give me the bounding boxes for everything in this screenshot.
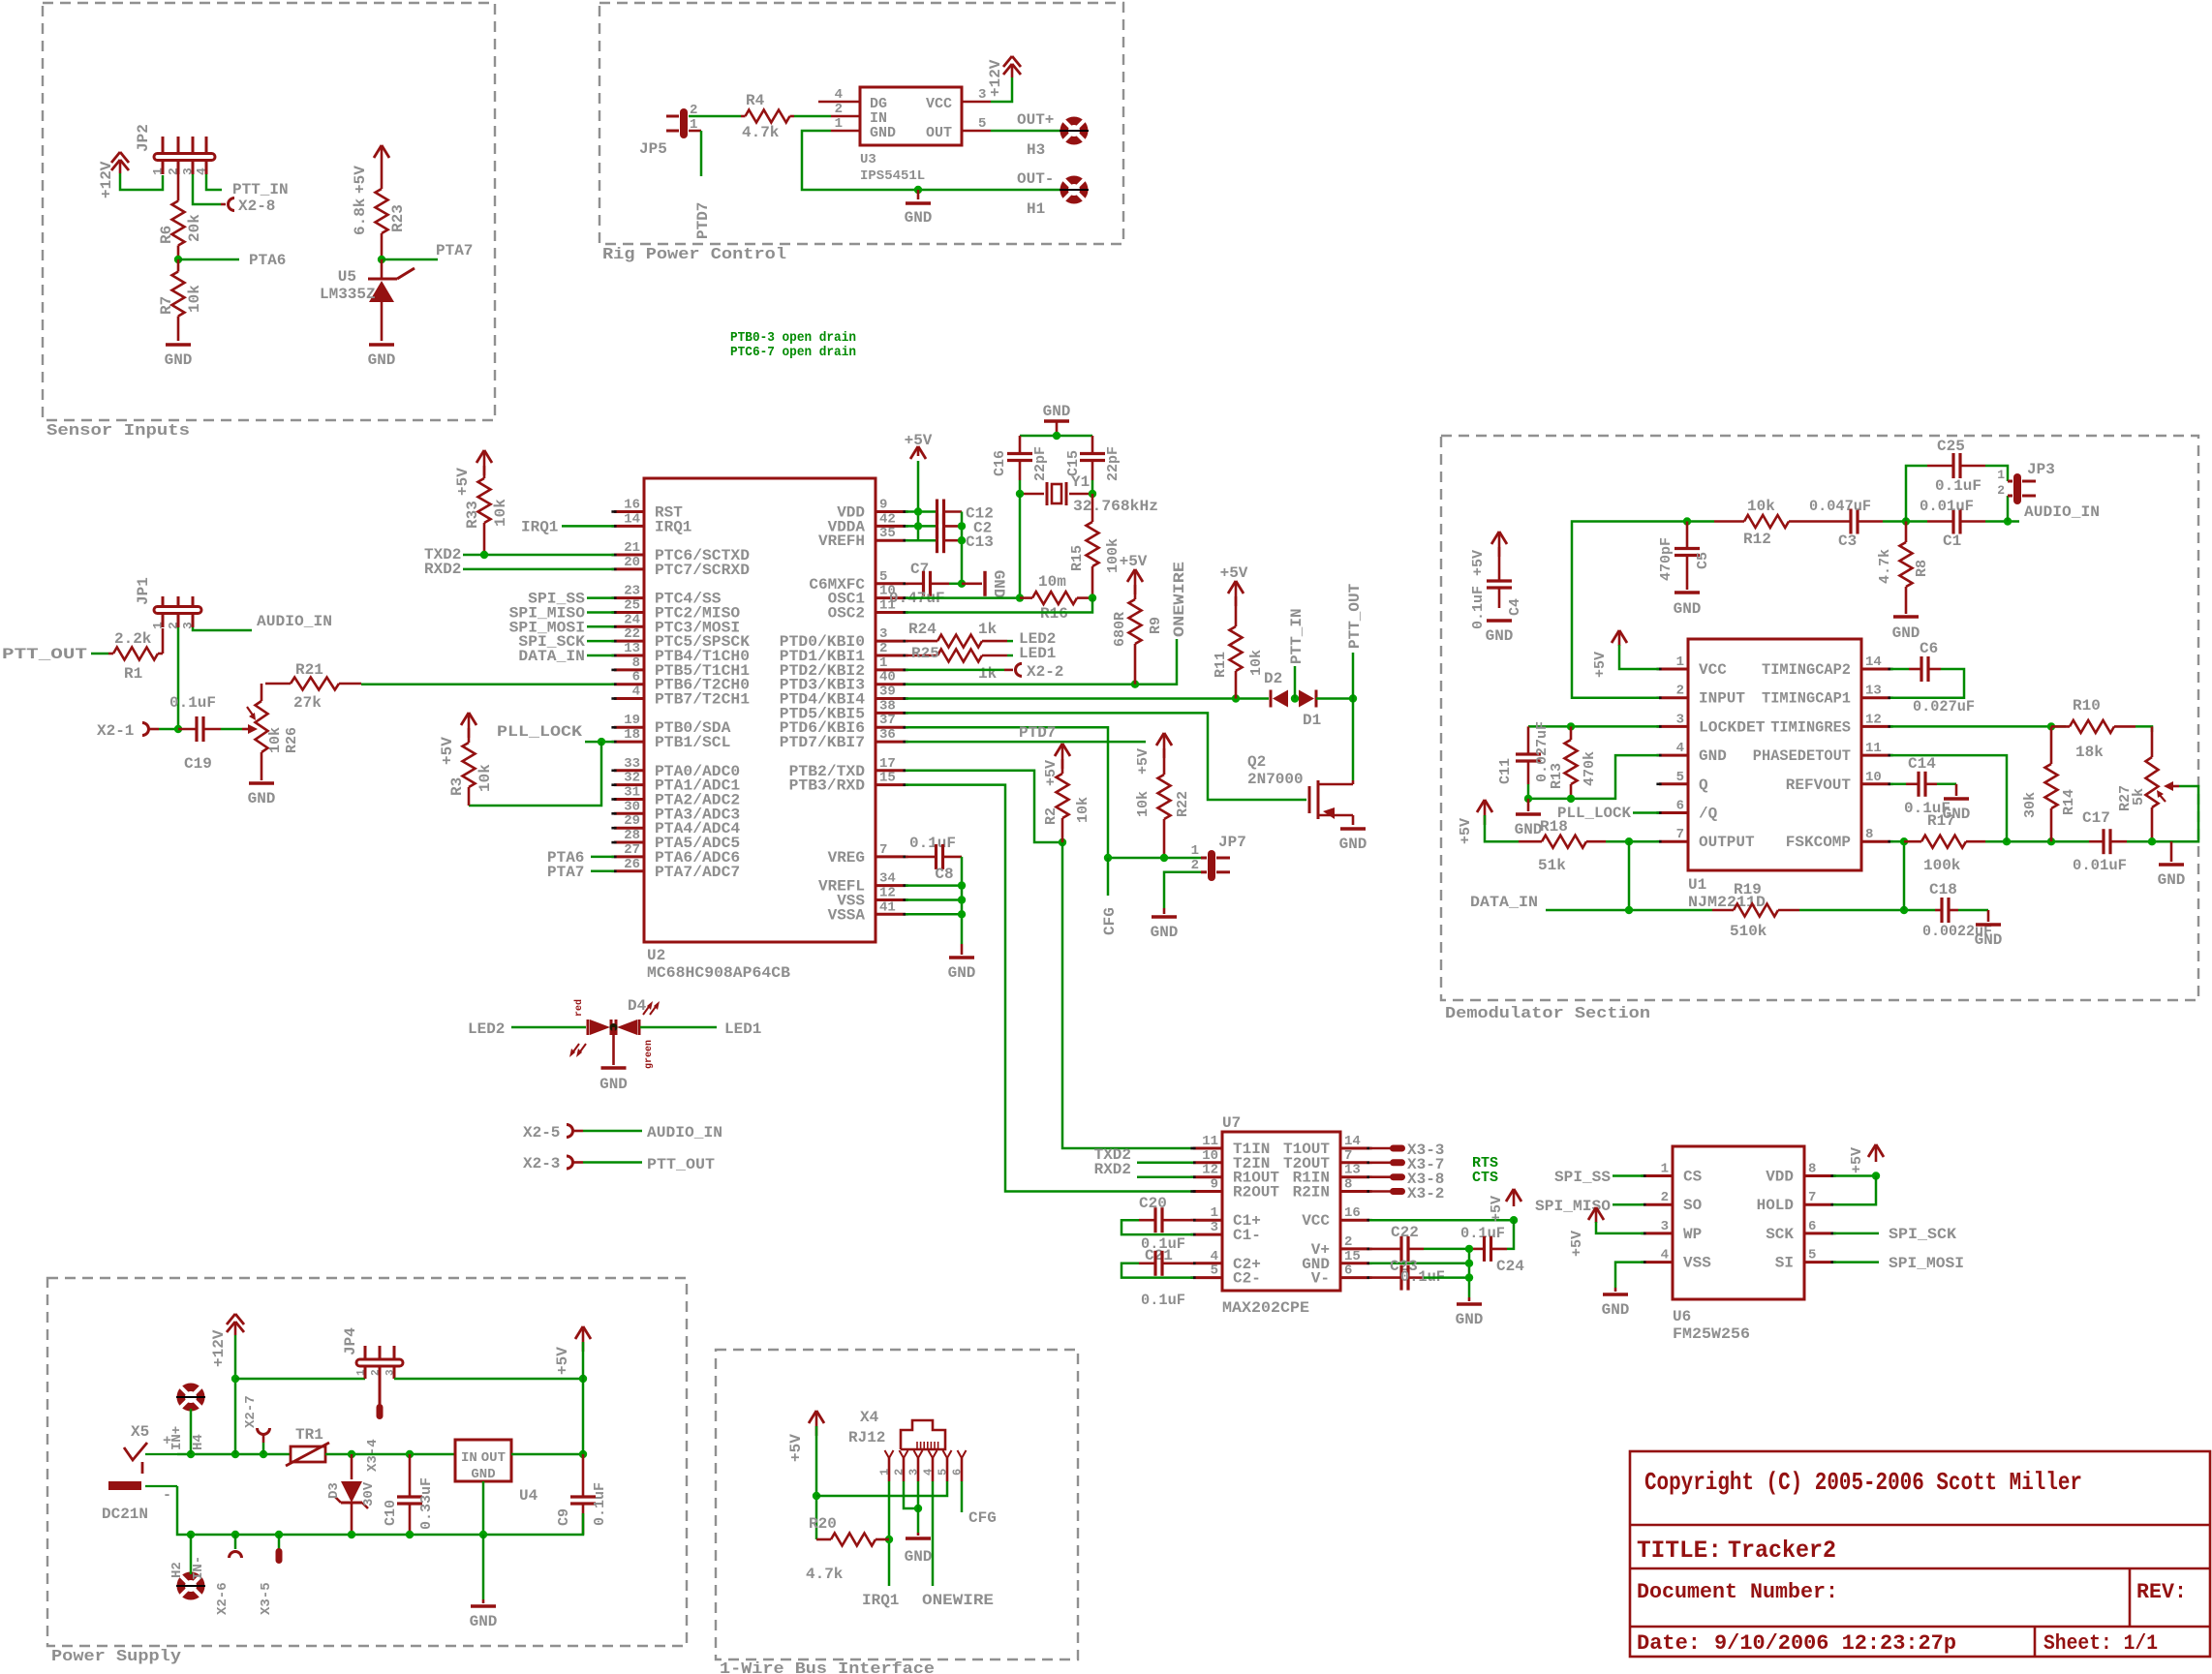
svg-text:PTB3/RXD: PTB3/RXD xyxy=(789,777,865,795)
svg-text:1: 1 xyxy=(151,167,166,175)
svg-text:AUDIO_IN: AUDIO_IN xyxy=(647,1124,722,1141)
capacitor C14 0.1uF (REFVOUT) xyxy=(1890,783,1906,786)
svg-text:15: 15 xyxy=(879,771,896,786)
wire JP1 pin2 down xyxy=(177,627,180,729)
temp sensor U5 LM335Z xyxy=(381,259,384,279)
wire U3 GND to OUT-/H1 xyxy=(802,131,1061,190)
svg-text:6: 6 xyxy=(1344,1263,1352,1279)
pin U1.4 GND xyxy=(1659,754,1688,757)
svg-text:SO: SO xyxy=(1683,1197,1703,1214)
pin U2.10 OSC1 xyxy=(876,596,906,599)
wire crystal gnd rail xyxy=(1020,435,1092,438)
svg-text:X2-6: X2-6 xyxy=(215,1582,230,1615)
svg-text:RJ12: RJ12 xyxy=(848,1429,885,1446)
wire PTT_OUT down to Q2 drain xyxy=(1352,699,1355,781)
svg-text:R25: R25 xyxy=(911,645,939,662)
svg-text:TR1: TR1 xyxy=(295,1426,323,1444)
node TXD2/R33 xyxy=(480,551,488,559)
resistor R23 6.8k xyxy=(381,170,384,189)
svg-text:27: 27 xyxy=(624,842,640,858)
svg-text:51k: 51k xyxy=(1538,857,1566,874)
svg-text:+5V: +5V xyxy=(352,166,369,194)
node PTA6 xyxy=(174,256,182,263)
svg-text:Y1: Y1 xyxy=(1071,473,1090,491)
wire C15 to crystal xyxy=(1091,480,1094,494)
svg-text:GND: GND xyxy=(1674,600,1702,618)
svg-text:PTT_IN: PTT_IN xyxy=(1288,608,1306,664)
ground (rig) xyxy=(906,201,931,204)
svg-text:14: 14 xyxy=(1865,654,1882,670)
pin U7.13 R1IN xyxy=(1340,1175,1369,1178)
svg-text:2: 2 xyxy=(1661,1190,1669,1205)
pin U7.3 C1- xyxy=(1193,1233,1222,1236)
wire RJ12 pin6 CFG xyxy=(961,1481,964,1512)
svg-text:PTD7: PTD7 xyxy=(1019,724,1056,742)
wire RJ12 pin1 IRQ1 xyxy=(888,1481,891,1586)
capacitor C6 0.027uF (timing caps) xyxy=(1890,668,1909,671)
svg-text:0.1uF: 0.1uF xyxy=(169,694,216,712)
wire PTD5 to Q2 gate xyxy=(906,713,1306,800)
svg-text:OUTPUT: OUTPUT xyxy=(1699,834,1755,851)
power switch U3 IPS5451L xyxy=(860,87,962,145)
svg-text:1-Wire Bus Interface: 1-Wire Bus Interface xyxy=(720,1660,935,1674)
svg-text:19: 19 xyxy=(624,713,640,728)
capacitor C5 470pF xyxy=(1674,547,1700,550)
svg-text:DATA_IN: DATA_IN xyxy=(1470,894,1538,911)
RJ12 pins xyxy=(888,1458,891,1481)
svg-text:R18: R18 xyxy=(1540,818,1568,836)
svg-text:4: 4 xyxy=(632,685,640,700)
wire SI / net SPI_MOSI xyxy=(1833,1261,1879,1263)
svg-text:4.7k: 4.7k xyxy=(742,124,780,141)
svg-text:X3-5: X3-5 xyxy=(259,1582,274,1615)
wire H4 to rail xyxy=(190,1409,193,1454)
pin U2.12 VSS xyxy=(876,898,906,901)
svg-text:JP1: JP1 xyxy=(135,577,152,605)
svg-text:GND: GND xyxy=(165,351,193,369)
svg-text:GND: GND xyxy=(870,125,896,141)
svg-text:11: 11 xyxy=(1202,1134,1218,1149)
pin U1.11 PHASEDETOUT xyxy=(1861,754,1890,757)
transistor Q2 2N7000 xyxy=(1308,786,1311,813)
wire DATA_IN xyxy=(587,654,614,657)
svg-text:41: 41 xyxy=(879,899,896,915)
FRAM U6 FM25W256 xyxy=(1673,1146,1804,1299)
svg-text:+12V: +12V xyxy=(987,59,1004,97)
svg-text:X2-1: X2-1 xyxy=(97,722,134,740)
wire PTB2/TXD to U7 T1IN xyxy=(906,771,1062,842)
svg-text:C5: C5 xyxy=(1695,552,1711,569)
svg-text:12: 12 xyxy=(879,886,896,901)
svg-text:38: 38 xyxy=(879,698,896,714)
svg-text:2.2k: 2.2k xyxy=(114,630,152,648)
node PLL_LOCK xyxy=(598,738,605,746)
capacitor C3 0.047uF xyxy=(1849,509,1852,534)
svg-text:IRQ1: IRQ1 xyxy=(862,1592,899,1609)
wire V- node xyxy=(1424,1276,1469,1279)
power +5V (U6 WP) xyxy=(1588,1207,1596,1220)
wire PHASEDETOUT xyxy=(1890,755,2007,841)
wire +5V down xyxy=(815,1426,818,1539)
pin U2.32 PTA1/ADC1 xyxy=(614,783,644,786)
svg-text:U4: U4 xyxy=(519,1487,538,1505)
ground (Q2) xyxy=(1340,827,1366,830)
pin U2.3 PTD0/KBI0 xyxy=(876,640,906,643)
power +12V (sensor) xyxy=(111,152,120,163)
svg-text:2: 2 xyxy=(879,641,887,656)
svg-text:30k: 30k xyxy=(2022,792,2039,818)
capacitor C23 0.1uF xyxy=(1399,1265,1402,1291)
pin U2.20 PTC7/SCRXD xyxy=(614,567,644,570)
wire OUT+ to H3 xyxy=(991,130,1061,133)
wire IRQ1 xyxy=(562,525,614,528)
pin U2.11 OSC2 xyxy=(876,611,906,614)
svg-text:R6: R6 xyxy=(158,226,175,244)
section box Rig Power Control xyxy=(599,3,1123,244)
svg-text:C16: C16 xyxy=(992,450,1008,476)
svg-text:R12: R12 xyxy=(1743,531,1771,548)
svg-text:2: 2 xyxy=(893,1469,906,1476)
wire C21 loop xyxy=(1121,1263,1193,1278)
resistor R1 2.2k xyxy=(108,653,113,655)
pin U6.7 HOLD xyxy=(1804,1203,1833,1206)
svg-text:IN+: IN+ xyxy=(169,1426,185,1450)
svg-text:5k: 5k xyxy=(2131,788,2147,806)
wire GND row xyxy=(1369,1263,1469,1265)
FSK demodulator U1 NJM2211D xyxy=(1688,639,1861,870)
RS232 driver U7 MAX202CPE xyxy=(1222,1132,1340,1291)
svg-text:1: 1 xyxy=(1191,843,1199,859)
svg-text:GND: GND xyxy=(948,964,976,982)
wire TXD2 xyxy=(463,554,614,557)
wire U4 OUT to +5V rail xyxy=(511,1453,583,1456)
svg-text:22: 22 xyxy=(624,626,640,642)
svg-text:4.7k: 4.7k xyxy=(806,1566,844,1583)
svg-text:2: 2 xyxy=(835,102,843,117)
pin U7.8 R2IN xyxy=(1340,1190,1369,1193)
pin U3.2 IN xyxy=(831,115,860,118)
svg-text:JP5: JP5 xyxy=(639,140,667,158)
wire OSC1 xyxy=(906,596,1020,599)
svg-text:+5V: +5V xyxy=(1569,1231,1585,1257)
svg-text:8: 8 xyxy=(1865,827,1873,842)
svg-text:32: 32 xyxy=(624,771,640,786)
pin U2.8 PTB5/T1CH1 xyxy=(614,668,644,671)
svg-text:U5: U5 xyxy=(338,268,356,286)
svg-text:X2-5: X2-5 xyxy=(523,1124,560,1141)
svg-text:Date:: Date: xyxy=(1637,1631,1701,1656)
svg-text:HOLD: HOLD xyxy=(1757,1197,1794,1214)
zener D3 30V xyxy=(351,1454,353,1479)
wire C25 to JP3 xyxy=(1985,466,2008,481)
wire D1 to PTT_OUT node xyxy=(1316,697,1353,700)
capacitor C2 xyxy=(936,513,938,538)
svg-text:16: 16 xyxy=(1344,1205,1361,1221)
svg-text:TITLE:: TITLE: xyxy=(1637,1537,1722,1565)
wire +12V vertical xyxy=(234,1335,237,1454)
svg-text:22pF: 22pF xyxy=(1032,446,1049,481)
svg-text:R2OUT: R2OUT xyxy=(1233,1184,1279,1202)
svg-text:-: - xyxy=(163,1487,171,1504)
svg-text:GND: GND xyxy=(1892,624,1920,642)
resistor R8 4.7k xyxy=(1905,522,1908,543)
svg-text:VDD: VDD xyxy=(1766,1169,1794,1186)
wire INPUT from audio chain xyxy=(1572,522,1659,698)
node R9/PTD3 xyxy=(1131,681,1139,688)
svg-text:6: 6 xyxy=(951,1469,965,1476)
svg-text:2: 2 xyxy=(1997,483,2005,498)
svg-text:U1: U1 xyxy=(1688,876,1706,894)
wire R26 bottom to gnd xyxy=(261,752,263,780)
svg-text:SPI_SS: SPI_SS xyxy=(1554,1169,1611,1186)
wire PTA6 xyxy=(591,856,614,859)
wire minus rail xyxy=(177,1486,583,1535)
connector X3-7 (T2OUT) xyxy=(1369,1162,1392,1165)
svg-text:X3-2: X3-2 xyxy=(1407,1185,1444,1202)
svg-text:470pF: 470pF xyxy=(1658,537,1674,581)
svg-text:6: 6 xyxy=(1676,799,1684,814)
svg-text:GND: GND xyxy=(1975,931,2003,949)
svg-text:X2-3: X2-3 xyxy=(523,1155,560,1172)
header JP2 xyxy=(162,137,165,154)
svg-text:17: 17 xyxy=(879,756,896,772)
svg-text:VCC: VCC xyxy=(1699,661,1727,679)
connector X3-5 xyxy=(278,1535,281,1549)
node D4 common xyxy=(610,1023,618,1031)
wire V+ node xyxy=(1424,1248,1469,1251)
svg-text:C22: C22 xyxy=(1391,1224,1419,1241)
section box 1-Wire Bus Interface xyxy=(716,1350,1078,1659)
svg-text:TIMINGCAP2: TIMINGCAP2 xyxy=(1762,661,1851,679)
wire RJ12 pin3 to gnd xyxy=(917,1481,920,1533)
wire TIMINGRES xyxy=(1890,725,2066,728)
capacitor C18 0.0022uF xyxy=(1940,898,1943,923)
pin U6.3 WP xyxy=(1644,1232,1673,1234)
wire JP7 pin2 to gnd xyxy=(1164,872,1201,908)
ground (R8) xyxy=(1893,615,1919,618)
svg-text:R16: R16 xyxy=(1040,605,1068,623)
svg-text:1k: 1k xyxy=(978,665,998,683)
svg-text:Power Supply: Power Supply xyxy=(51,1648,181,1666)
pin U6.1 CS xyxy=(1644,1174,1673,1177)
svg-text:VREG: VREG xyxy=(828,849,865,867)
svg-text:C14: C14 xyxy=(1908,755,1936,773)
wire SPI_SCK xyxy=(587,640,614,643)
svg-text:R26: R26 xyxy=(284,727,300,753)
pin U2.9 VDD xyxy=(876,510,906,513)
svg-text:13: 13 xyxy=(624,641,640,656)
pin U2.2 PTD1/KBI1 xyxy=(876,654,906,657)
wire C25 branch xyxy=(1906,466,1927,522)
pin U2.15 PTB3/RXD xyxy=(876,783,906,786)
pin U7.12 R1OUT xyxy=(1193,1175,1222,1178)
pin U1.8 FSKCOMP xyxy=(1861,840,1890,843)
svg-text:30: 30 xyxy=(624,799,640,814)
svg-text:IRQ1: IRQ1 xyxy=(521,518,558,535)
capacitor C25 0.1uF xyxy=(1951,453,1954,478)
pin U7.10 T2IN xyxy=(1193,1161,1222,1164)
wire JP2 pin4 PTT_IN xyxy=(206,174,222,190)
pin U7.11 T1IN xyxy=(1193,1147,1222,1150)
svg-text:RXD2: RXD2 xyxy=(1094,1161,1131,1178)
svg-text:Sheet: 1/1: Sheet: 1/1 xyxy=(2043,1631,2158,1656)
svg-text:Sensor Inputs: Sensor Inputs xyxy=(46,422,190,441)
svg-text:9: 9 xyxy=(1211,1177,1218,1193)
pin U6.6 SCK xyxy=(1804,1232,1833,1234)
svg-text:OUT: OUT xyxy=(926,125,952,141)
svg-text:AUDIO_IN: AUDIO_IN xyxy=(2024,503,2100,521)
svg-text:2N7000: 2N7000 xyxy=(1247,771,1304,788)
pin U2.14 IRQ1 xyxy=(614,525,644,528)
svg-text:22pF: 22pF xyxy=(1105,446,1121,481)
svg-text:5: 5 xyxy=(1808,1248,1816,1263)
pin U2.27 PTA6/ADC6 xyxy=(614,855,644,858)
svg-text:C21: C21 xyxy=(1145,1247,1173,1264)
pin U2.30 PTA3/ADC3 xyxy=(614,812,644,815)
svg-text:LM335Z: LM335Z xyxy=(320,286,376,303)
wire C20 loop xyxy=(1121,1220,1193,1234)
svg-text:+5V: +5V xyxy=(1043,760,1060,786)
power +5V (U1 VCC) xyxy=(1612,630,1619,643)
svg-text:Q2: Q2 xyxy=(1247,753,1266,771)
pad H2 xyxy=(176,1572,205,1600)
svg-text:OUT+: OUT+ xyxy=(1017,111,1054,129)
svg-text:C18: C18 xyxy=(1929,881,1957,898)
wire VDD xyxy=(906,510,937,513)
wire CFG rail xyxy=(1108,857,1201,860)
diode D2 xyxy=(1270,690,1273,708)
svg-text:TIMINGCAP1: TIMINGCAP1 xyxy=(1762,690,1851,708)
svg-text:IRQ1: IRQ1 xyxy=(655,518,691,535)
pad H1 xyxy=(1060,176,1089,204)
wire C18 to gnd xyxy=(1958,909,1988,912)
svg-text:MAX202CPE: MAX202CPE xyxy=(1222,1299,1309,1317)
svg-text:5: 5 xyxy=(1676,770,1684,785)
svg-text:14: 14 xyxy=(624,511,640,527)
svg-text:0.1uF: 0.1uF xyxy=(1141,1292,1185,1309)
svg-text:5: 5 xyxy=(937,1469,950,1476)
resistor R6 20k xyxy=(177,174,180,201)
capacitor C16 22pF xyxy=(1007,452,1032,455)
wire FSKCOMP to R19/C18 xyxy=(1903,841,1906,910)
svg-text:PTT_OUT: PTT_OUT xyxy=(2,646,88,663)
svg-text:5: 5 xyxy=(1211,1263,1218,1279)
svg-text:LED1: LED1 xyxy=(1019,645,1056,662)
wire +12V to JP4 pin1 xyxy=(235,1378,365,1381)
svg-text:GND: GND xyxy=(368,351,396,369)
connector X2-7 xyxy=(258,1428,270,1435)
svg-text:PTD7: PTD7 xyxy=(694,202,712,239)
wire SCK / net SPI_SCK xyxy=(1833,1233,1879,1235)
svg-text:PTB1/SCL: PTB1/SCL xyxy=(655,734,730,751)
svg-text:C13: C13 xyxy=(966,533,994,551)
svg-text:R14: R14 xyxy=(2061,789,2077,815)
svg-text:REFVOUT: REFVOUT xyxy=(1786,776,1852,794)
svg-text:R2IN: R2IN xyxy=(1293,1184,1330,1202)
svg-text:7: 7 xyxy=(1344,1148,1352,1164)
wire JP4 pin3 to +5V rail xyxy=(394,1378,583,1381)
resistor R12 10k xyxy=(1714,520,1744,523)
svg-text:FM25W256: FM25W256 xyxy=(1673,1325,1750,1343)
connector X3-4 (JP4 pin2) xyxy=(377,1404,384,1419)
svg-text:JP2: JP2 xyxy=(135,124,152,152)
svg-text:GND: GND xyxy=(599,1076,628,1093)
wire VDDA xyxy=(906,525,937,528)
wire C19 to R26 wiper xyxy=(221,728,242,731)
svg-text:7: 7 xyxy=(1808,1190,1816,1205)
svg-text:SPI_MOSI: SPI_MOSI xyxy=(1889,1255,1964,1272)
svg-text:10k: 10k xyxy=(476,764,494,792)
svg-text:10k: 10k xyxy=(492,499,509,527)
svg-text:IPS5451L: IPS5451L xyxy=(860,168,925,184)
svg-text:PTT_OUT: PTT_OUT xyxy=(1346,583,1364,649)
wire +5V vertical xyxy=(582,1342,585,1454)
svg-text:0.01uF: 0.01uF xyxy=(1920,498,1974,515)
svg-text:9/10/2006 12:23:27p: 9/10/2006 12:23:27p xyxy=(1714,1631,1956,1656)
ground (RJ12) xyxy=(917,1533,920,1536)
svg-text:1: 1 xyxy=(1676,654,1684,670)
svg-text:10: 10 xyxy=(1865,770,1882,785)
pin U2.24 PTC3/MOSI xyxy=(614,625,644,628)
diode D1 xyxy=(1315,690,1318,708)
svg-text:3: 3 xyxy=(1211,1220,1218,1235)
resistor R22 10k (CFG pullup) xyxy=(1156,733,1164,746)
svg-text:ONEWIRE: ONEWIRE xyxy=(1171,562,1188,637)
svg-text:Q: Q xyxy=(1699,776,1708,794)
svg-text:WP: WP xyxy=(1683,1226,1702,1243)
pin U2.38 PTD5/KBI5 xyxy=(876,712,906,715)
power +12V (U3 VCC) xyxy=(991,77,1012,102)
svg-text:25: 25 xyxy=(624,598,640,614)
svg-text:7: 7 xyxy=(1676,827,1684,842)
resistor R15 100k xyxy=(1091,494,1094,522)
wire FSKCOMP xyxy=(1890,840,1904,843)
wire JP5 pin2 to R4 xyxy=(689,115,741,118)
node R11/D2 xyxy=(1232,694,1240,702)
svg-text:12: 12 xyxy=(1865,712,1882,727)
net CFG stub xyxy=(1107,858,1110,896)
svg-text:GND: GND xyxy=(1151,924,1179,941)
pin U2.31 PTA2/ADC2 xyxy=(614,798,644,801)
svg-text:OUT: OUT xyxy=(481,1450,506,1466)
svg-text:Tracker2: Tracker2 xyxy=(1728,1537,1836,1565)
pin U2.5 C6MXFC xyxy=(876,582,906,585)
wire VREG rail xyxy=(961,857,964,944)
svg-text:6.8k: 6.8k xyxy=(352,198,369,235)
svg-text:R13: R13 xyxy=(1549,763,1565,789)
svg-text:R19: R19 xyxy=(1734,881,1762,898)
wire RJ12 pin4 ONEWIRE xyxy=(932,1481,935,1586)
svg-text:VREFH: VREFH xyxy=(818,533,865,550)
svg-text:+12V: +12V xyxy=(98,161,115,198)
svg-text:1: 1 xyxy=(835,116,843,132)
svg-text:18: 18 xyxy=(624,727,640,743)
wire R10 to R27 top xyxy=(2135,726,2152,732)
header JP1 xyxy=(162,596,165,607)
wire VREFH xyxy=(906,539,937,542)
svg-text:H4: H4 xyxy=(191,1434,206,1450)
pin U2.16 RST xyxy=(614,510,644,513)
svg-text:18k: 18k xyxy=(2075,744,2104,761)
svg-text:1: 1 xyxy=(356,1369,368,1376)
resistor R9 680R xyxy=(1127,569,1135,582)
svg-text:U2: U2 xyxy=(647,947,665,964)
svg-text:FSKCOMP: FSKCOMP xyxy=(1786,834,1851,851)
resistor R13 470k xyxy=(1570,726,1573,740)
svg-text:TIMINGRES: TIMINGRES xyxy=(1770,718,1851,736)
svg-text:+5V: +5V xyxy=(554,1347,571,1375)
resistor R14 30k xyxy=(2050,726,2053,764)
